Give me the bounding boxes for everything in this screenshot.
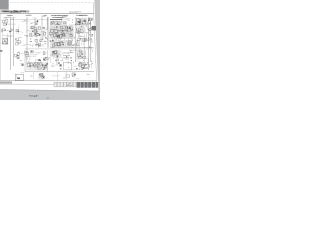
right column verticals extra: [77, 34, 85, 62]
title text smudge: [0, 10, 29, 12]
title faint right text: [75, 11, 81, 13]
marks near M1: [58, 62, 61, 67]
viewer gray right strip: [94, 0, 100, 91]
bottom mid cluster extra: [40, 74, 44, 78]
relay K2 area: [14, 53, 19, 59]
crossed valve X-box low: [34, 63, 38, 67]
page background: [0, 0, 100, 100]
gauge lines: [63, 53, 71, 58]
terminal TB1 area: [16, 38, 21, 45]
low-left marks: [21, 64, 23, 66]
right low cluster: [76, 63, 87, 70]
motor M1 outline: [64, 63, 72, 70]
resistor group R1: [1, 29, 6, 32]
component label dashes: [5, 19, 91, 78]
right rail specks: [89, 17, 92, 20]
fine texture right half top: [84, 19, 87, 22]
filter F1 cluster: [77, 50, 85, 58]
lower-mid enclosure: [25, 50, 48, 72]
dark pad U1: [78, 21, 80, 23]
bus y47.5: [50, 47, 94, 49]
right top marks: [88, 19, 93, 22]
sensor area B1: [76, 38, 86, 45]
relay K3 area: [25, 51, 34, 57]
bottom boxes x65: [67, 73, 76, 77]
bottom mid cluster: [39, 73, 43, 77]
revision table cells: [54, 82, 76, 87]
valve cluster V1: [30, 26, 45, 36]
ladder rail pair x47.5: [47, 17, 48, 48]
center run: [50, 40, 72, 46]
low cluster dark specks: [45, 65, 47, 66]
frame top dashed border: [10, 2, 93, 4]
frame right border: [93, 3, 97, 84]
fine texture left mid: [41, 39, 44, 40]
inter-row stubs: [53, 39, 69, 41]
title rule: [0, 12, 94, 14]
breaker CB1 box: [15, 74, 23, 80]
relay K1 area: [2, 20, 8, 26]
scan corner gray block: [0, 0, 9, 10]
fine texture right half low: [78, 69, 81, 70]
page bottom edge: [0, 90, 99, 91]
gauge marks area: [0, 0, 1, 1]
wire verticals: [11, 17, 91, 70]
bus y71.6: [25, 71, 94, 73]
CB1 dark mark: [17, 77, 20, 79]
contact S1 area: [35, 20, 38, 24]
viewer gray bottom band: [0, 90, 100, 101]
caption text faint: [48, 97, 49, 98]
cluster underlay washes: [26, 18, 87, 71]
center block band line: [50, 30, 73, 32]
frame line y84.3: [0, 83, 97, 85]
title block dark cells: [77, 82, 99, 88]
caption text dark: [31, 95, 32, 96]
resistor group R3: [16, 29, 19, 32]
wire mesh horizontal segments: [1, 17, 92, 79]
module U6 area: [76, 26, 83, 34]
pump P1 cluster: [52, 51, 58, 57]
frame left border: [0, 13, 1, 80]
general fine pepper layer: [6, 17, 92, 70]
dark blob lower-mid: [43, 59, 45, 61]
dark segments top right: [51, 15, 87, 17]
wire mesh vertical segments: [2, 18, 92, 80]
scan smudge bottom-left: [0, 81, 12, 83]
center block fine specks: [65, 30, 68, 32]
bus y48.9: [25, 48, 94, 50]
lower mid cluster: [27, 63, 48, 70]
dark module D1: [92, 26, 96, 30]
transformer T1 area: [2, 39, 7, 44]
dense center block: [50, 26, 73, 38]
module U1 U2 area: [75, 18, 86, 24]
connector J2 area: [51, 21, 67, 24]
valve stack V2: [30, 39, 42, 46]
bus y19.3 left: [10, 18, 48, 20]
valve cluster V1 extra: [35, 27, 46, 35]
dark pad U2: [84, 20, 86, 22]
terminal TB2 column: [43, 52, 48, 61]
revision table text marks: [72, 83, 75, 86]
resistor group R2: [9, 29, 12, 32]
left margin mark: [0, 50, 2, 52]
bus y19.5: [50, 19, 62, 21]
frame line y80.8: [0, 80, 97, 82]
transformer T1 X-box: [3, 39, 8, 44]
top label text row: [4, 15, 88, 18]
